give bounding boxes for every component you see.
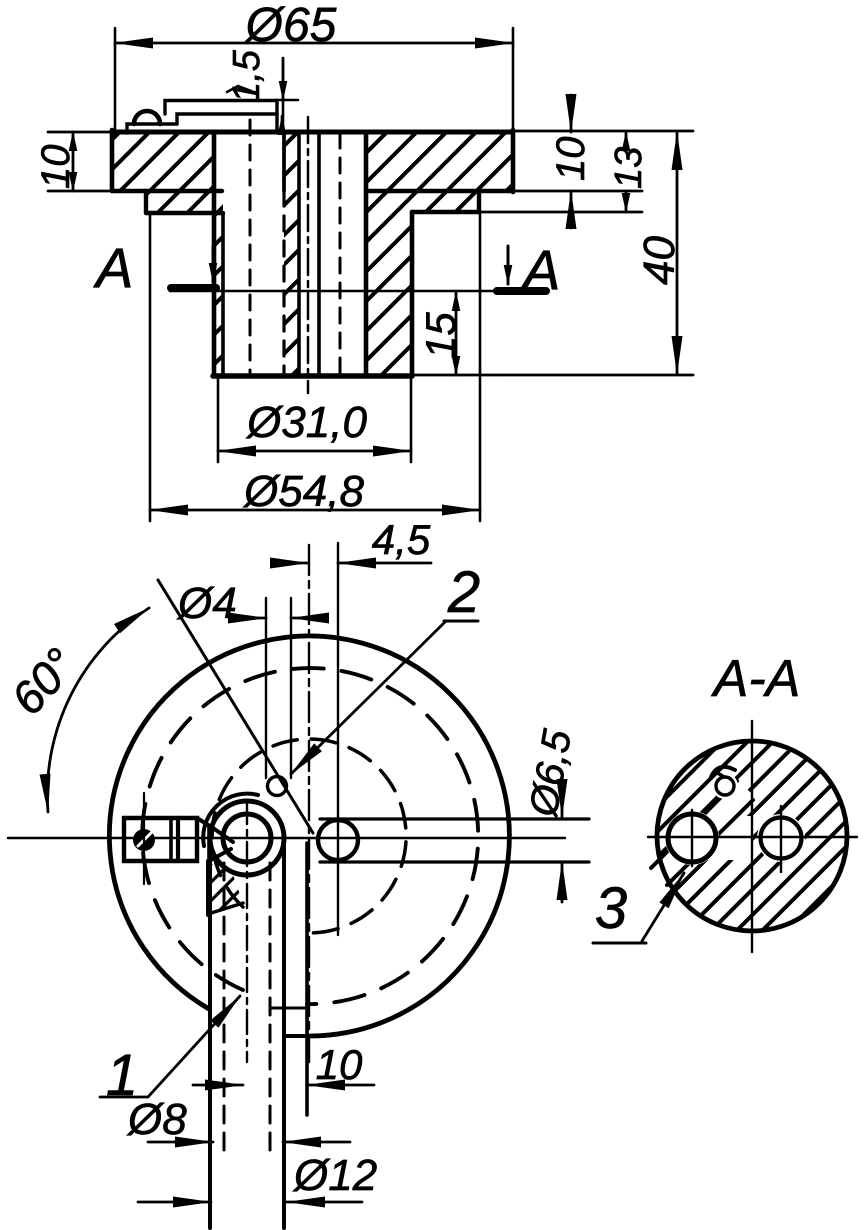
A-A hatch disk bbox=[657, 741, 847, 931]
dim 10 slot arrow right bbox=[307, 1084, 374, 1087]
dim Ø31 ext left bbox=[217, 378, 220, 462]
dim Ø12 arrow right bbox=[287, 1201, 362, 1204]
svg-text:1: 1 bbox=[106, 1043, 138, 1108]
dim 4,5 arrow left bbox=[274, 562, 308, 565]
leader 1 bbox=[100, 996, 240, 1097]
step left edge bbox=[144, 191, 148, 213]
svg-text:4,5: 4,5 bbox=[372, 516, 431, 563]
gauge plinth bbox=[127, 124, 177, 133]
clamp pin center line bbox=[143, 793, 145, 884]
hidden circle Ø31 bbox=[212, 739, 406, 933]
A-A squiggle bbox=[711, 767, 735, 777]
A-A center pocket bbox=[700, 816, 752, 860]
dim 4,5 arrow right bbox=[338, 562, 431, 565]
svg-text:A-A: A-A bbox=[711, 650, 801, 708]
svg-text:Ø54,8: Ø54,8 bbox=[242, 467, 364, 516]
svg-text:Ø12: Ø12 bbox=[292, 1151, 377, 1200]
dim Ø4 ext left bbox=[265, 598, 267, 778]
clamp jaw top bbox=[197, 818, 233, 842]
clamp block joint b bbox=[176, 818, 180, 861]
dim Ø65 ext right bbox=[512, 28, 515, 131]
step bottom right bbox=[412, 210, 479, 214]
slot right edge bbox=[305, 843, 309, 1115]
flange bottom left bbox=[112, 189, 222, 193]
gauge mid plate bbox=[177, 114, 277, 124]
dim 10 right arrow upper bbox=[570, 95, 573, 132]
dim Ø4 arrow right bbox=[291, 617, 323, 620]
svg-text:Ø31,0: Ø31,0 bbox=[245, 398, 367, 447]
dim 1,5 arrow lower bbox=[281, 116, 284, 133]
dim 10 slot arrow left bbox=[193, 1084, 243, 1087]
A-A hole Ø4 bbox=[716, 777, 734, 795]
A-A slot white band bbox=[650, 780, 756, 886]
svg-text:10: 10 bbox=[549, 137, 593, 182]
svg-text:1,5: 1,5 bbox=[226, 49, 268, 103]
clamp pin hole bbox=[133, 829, 155, 851]
A-A hole Ø8 bbox=[668, 814, 716, 862]
rib left edge bbox=[208, 843, 212, 1228]
step bottom ext right bbox=[479, 211, 642, 214]
svg-text:Ø4: Ø4 bbox=[176, 579, 237, 628]
svg-text:10: 10 bbox=[34, 145, 78, 190]
clamp block outline bbox=[124, 818, 197, 861]
A-A hole Ø6,5 center line bbox=[780, 806, 782, 872]
leader 3 bbox=[642, 873, 684, 941]
A-A slot line upper bbox=[651, 781, 737, 868]
rib hidden edge a bbox=[223, 863, 226, 1158]
A-A slot line lower bbox=[667, 800, 753, 885]
boss bore Ø8 bbox=[223, 814, 271, 862]
svg-text:Ø65: Ø65 bbox=[244, 0, 337, 52]
hidden hole line c bbox=[339, 133, 342, 376]
dim Ø31 line bbox=[218, 450, 411, 453]
hidden hole line a bbox=[249, 120, 252, 376]
cutting arrow left bbox=[212, 246, 215, 282]
svg-text:10: 10 bbox=[316, 1041, 363, 1088]
gauge flourish bbox=[227, 86, 251, 92]
rib right edge bbox=[282, 843, 286, 1228]
flange top extension left bbox=[48, 131, 112, 134]
clamp block joint a bbox=[169, 818, 173, 861]
flange bottom ext left bbox=[48, 190, 112, 193]
A-A hole Ø8 white bbox=[665, 811, 719, 865]
boss chamfer arc bbox=[203, 794, 258, 846]
flange right edge bbox=[511, 130, 516, 192]
dim Ø31 ext right bbox=[410, 378, 413, 462]
clamp jaw face bbox=[207, 827, 211, 861]
bore wall line b bbox=[317, 133, 321, 376]
flange top outline bbox=[112, 130, 513, 135]
svg-text:A: A bbox=[520, 238, 560, 301]
hub bottom ext right bbox=[412, 374, 693, 377]
wedge edge bbox=[206, 861, 210, 915]
dim 1,5 arrow upper bbox=[282, 58, 285, 100]
dim 40 line bbox=[676, 132, 679, 374]
bore right edge bbox=[364, 133, 369, 376]
wedge bottom bbox=[208, 903, 243, 914]
flange hatch left bbox=[112, 133, 214, 190]
svg-text:40: 40 bbox=[635, 236, 684, 285]
gauge right edge bbox=[275, 101, 278, 133]
svg-text:13: 13 bbox=[608, 147, 650, 189]
hidden circle Ø54,8 bbox=[142, 668, 478, 1004]
vertical center line bbox=[308, 545, 310, 1062]
flange outer circle Ø65 bbox=[109, 636, 509, 1036]
dim Ø4 arrow left bbox=[234, 617, 266, 620]
cutting plane line bbox=[170, 290, 545, 293]
flange bottom right bbox=[366, 189, 513, 193]
slot upper edge bbox=[320, 817, 589, 820]
dim 13 line bbox=[625, 132, 628, 150]
bore wall line a bbox=[297, 133, 301, 376]
dim Ø12 arrow left bbox=[138, 1201, 211, 1204]
section center line bbox=[307, 117, 310, 393]
clamp jaw bottom bbox=[209, 849, 231, 861]
hole Ø6,5 bbox=[318, 820, 358, 860]
cutting tick left bbox=[171, 284, 216, 292]
step bottom left bbox=[146, 211, 223, 215]
A-A vertical center line bbox=[751, 721, 753, 952]
hidden hole line b bbox=[282, 133, 286, 191]
step right edge bbox=[477, 191, 481, 212]
dim 1,5 tick bbox=[275, 99, 298, 102]
dim 10 left line bbox=[72, 132, 75, 191]
cutting arrow right bbox=[507, 246, 510, 284]
hub right edge bbox=[410, 212, 415, 376]
cutting tick right bbox=[497, 287, 546, 295]
dim 15 line bbox=[455, 292, 458, 375]
dim Ø6,5 arrow upper bbox=[561, 776, 564, 817]
rib hidden edge b bbox=[269, 863, 272, 1158]
hole Ø6,5 center line bbox=[337, 543, 339, 935]
A-A hole Ø6,5 bbox=[761, 818, 802, 859]
ray 60 degrees bbox=[158, 580, 313, 833]
leader 2 underline bbox=[444, 620, 478, 623]
slot closure a bbox=[272, 1007, 307, 1010]
boss ring Ø12 bbox=[210, 801, 284, 875]
horizontal center line bbox=[8, 837, 565, 839]
flange left edge bbox=[110, 130, 115, 191]
dim Ø65 line bbox=[115, 42, 513, 45]
A-A hole Ø8 center line bbox=[691, 810, 693, 866]
slot lower edge bbox=[320, 860, 589, 863]
leader 2 bbox=[291, 621, 446, 774]
dim Ø6,5 arrow lower bbox=[561, 862, 564, 902]
A-A outer circle bbox=[657, 741, 847, 931]
dim Ø65 ext left bbox=[114, 28, 117, 133]
center web hatch bbox=[284, 133, 300, 376]
hub bottom bbox=[213, 373, 412, 379]
svg-text:3: 3 bbox=[595, 876, 627, 941]
dim Ø54,8 ext right bbox=[479, 212, 482, 521]
leader 3 underline bbox=[593, 942, 646, 945]
hub left inner wall bbox=[221, 213, 225, 376]
dim Ø54,8 ext left bbox=[149, 213, 152, 521]
hole Ø4 bbox=[268, 777, 287, 796]
dim 10 right arrow lower bbox=[570, 191, 573, 228]
hub left outer edge bbox=[212, 133, 217, 376]
dim Ø4 ext right bbox=[290, 598, 292, 778]
wedge hatch bbox=[207, 862, 243, 914]
gauge dome bbox=[134, 111, 160, 124]
svg-text:A: A bbox=[93, 236, 133, 299]
step and hub wall hatch left bbox=[146, 191, 223, 376]
A-A horizontal center line bbox=[648, 836, 857, 838]
dim Ø8 arrow right bbox=[283, 1141, 350, 1144]
dim Ø54,8 line bbox=[150, 509, 480, 512]
A-A hole Ø6,5 white bbox=[757, 814, 805, 862]
flange step hub hatch right bbox=[366, 133, 513, 376]
flange top extension right bbox=[513, 130, 693, 133]
rib center line bbox=[246, 800, 248, 1062]
arc dim 60 bbox=[47, 608, 149, 812]
A-A hole Ø4 white bbox=[712, 773, 738, 799]
clamp pin slash bbox=[138, 833, 151, 846]
dim 1,5 line bbox=[282, 58, 285, 133]
svg-text:15: 15 bbox=[417, 312, 464, 359]
slot closure b bbox=[284, 1034, 307, 1038]
dim Ø8 arrow left bbox=[148, 1141, 213, 1144]
flange bottom ext right bbox=[513, 190, 642, 193]
gauge top plate bbox=[165, 101, 277, 115]
svg-text:2: 2 bbox=[447, 560, 480, 625]
